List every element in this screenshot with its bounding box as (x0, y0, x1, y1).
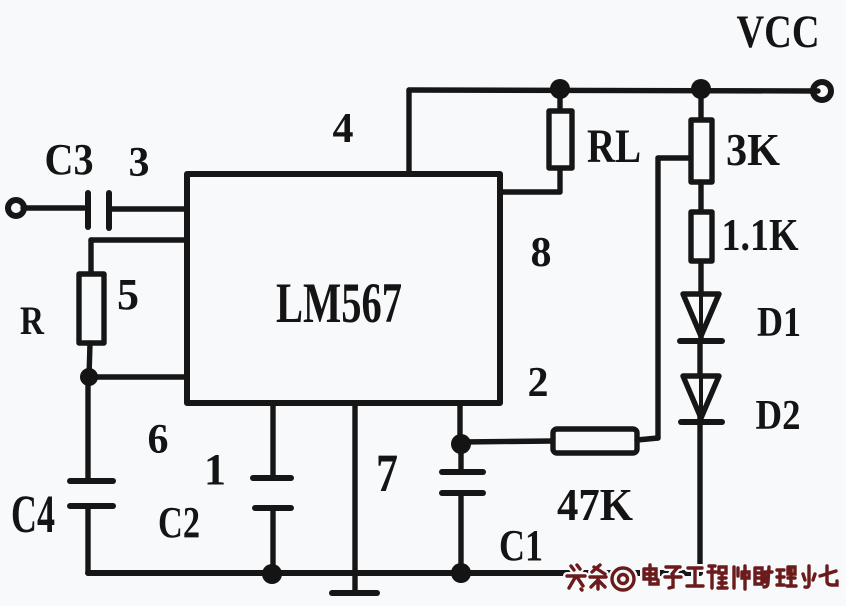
junction dot C1-bus (451, 563, 471, 583)
diode D1 (680, 294, 722, 341)
wire node2 to 47K (461, 441, 553, 442)
capacitor C1 (442, 472, 483, 493)
svg-text:C2: C2 (158, 498, 200, 547)
wire C3 to pin 3 (112, 206, 187, 211)
junction dot node pin2 (451, 434, 471, 454)
wire RL bottom stub (557, 168, 562, 192)
wire 3K top stub (698, 89, 703, 120)
wire 3K to 1.1K (698, 182, 703, 212)
wire pin 5 horizontal (91, 237, 187, 242)
svg-text:D2: D2 (756, 393, 801, 439)
svg-text:LM567: LM567 (276, 272, 402, 335)
svg-text:8: 8 (531, 230, 552, 276)
svg-text:3K: 3K (726, 124, 780, 175)
ground symbol (332, 590, 377, 596)
wire pin 4 riser (406, 90, 411, 174)
junction dot node R-pin6 (80, 368, 98, 386)
wire C2 to bus (270, 508, 275, 573)
wire pin 7 down (352, 403, 357, 591)
capacitor C2 (253, 478, 291, 508)
wire R node down to C4 (85, 377, 90, 479)
wire 47K right to riser (637, 438, 658, 440)
svg-text:C4: C4 (11, 484, 55, 544)
svg-text:RL: RL (587, 120, 641, 173)
junction dot C2-bus (262, 564, 282, 584)
wire D1 to D2 (697, 341, 702, 421)
wire C1 to bus (458, 493, 463, 573)
svg-text:6: 6 (148, 417, 169, 463)
input terminal (8, 200, 24, 216)
svg-text:4: 4 (333, 106, 354, 152)
wire input to C3 (23, 205, 84, 210)
wire node2 down to C1 (458, 444, 463, 470)
resistor 47K (553, 429, 637, 453)
svg-text:R: R (20, 298, 45, 343)
svg-text:47K: 47K (557, 479, 633, 530)
wire pin5 down to R (88, 240, 93, 274)
wire RL top stub (557, 89, 562, 111)
svg-text:3: 3 (129, 140, 150, 186)
wire tap to 3K (658, 155, 691, 160)
wire D2 to bus (697, 422, 702, 573)
wire pin 6 horizontal (89, 374, 187, 379)
wire C4 to ground bus (85, 506, 90, 573)
resistor 1.1K (691, 212, 712, 261)
wire 1.1K to D1 (698, 261, 703, 339)
svg-text:C3: C3 (45, 135, 94, 184)
IC LM567 box U1 (187, 174, 500, 403)
junction dot node VCC-RL (550, 79, 570, 99)
wire pin 1 stem C2 (270, 403, 275, 475)
svg-text:C1: C1 (499, 521, 543, 570)
ground bus (88, 570, 700, 576)
resistor RL (549, 111, 572, 168)
VCC terminal (813, 82, 831, 100)
svg-text:1: 1 (204, 445, 226, 494)
VCC top wire (409, 90, 818, 91)
capacitor C4 (70, 481, 113, 506)
capacitor C3 (88, 193, 109, 228)
svg-text:VCC: VCC (737, 6, 820, 58)
resistor R (79, 274, 104, 343)
svg-text:D1: D1 (757, 300, 801, 346)
diode D2 (681, 376, 722, 422)
svg-text:2: 2 (528, 360, 549, 406)
wire riser up to 3K tap (655, 158, 660, 438)
svg-text:1.1K: 1.1K (722, 209, 799, 260)
wire pin 2 stub (457, 403, 462, 444)
wire R bottom (89, 343, 90, 377)
svg-text:7: 7 (376, 443, 398, 503)
svg-text:5: 5 (117, 270, 139, 319)
wire RL to pin 8 (502, 189, 560, 194)
resistor 3K (691, 120, 712, 182)
junction dot node VCC-3K (691, 79, 711, 99)
